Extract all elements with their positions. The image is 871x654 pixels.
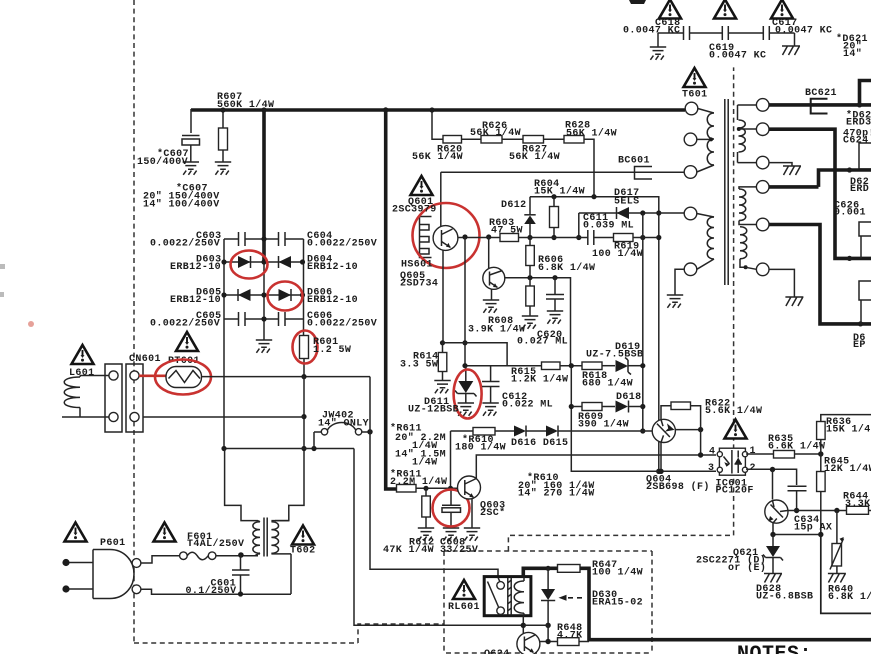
svg-text:5ELS: 5ELS: [614, 197, 640, 208]
resistor R628: [564, 136, 584, 144]
svg-text:NOTES:: NOTES:: [737, 643, 812, 654]
wire: Q621 emitter row y534.5: [773, 523, 821, 535]
wire: stub y170: [819, 170, 871, 187]
zener D619: [616, 360, 629, 372]
svg-text:15K 1/4W: 15K 1/4W: [534, 186, 585, 198]
resistor R627: [523, 136, 544, 144]
wire: y448.5 horizontal (bridge left to x354): [224, 448, 354, 450]
partial triangle at top edge: [629, 0, 646, 4]
warning triangle (C618): [659, 0, 681, 19]
transistor Q621: [765, 500, 788, 523]
svg-text:0.001: 0.001: [834, 208, 866, 219]
svg-text:14" ONLY: 14" ONLY: [318, 418, 369, 430]
warning triangle (F601): [154, 523, 176, 542]
wire: D611 branch vertical x465: [464, 237, 466, 366]
wire C618 to ground: [657, 33, 659, 47]
T601 primary winding upper: [698, 109, 714, 114]
wire: Q601 base from y172 line: [440, 172, 442, 226]
transistor Q603: [458, 476, 481, 499]
dashed boundary upper-right (through T601): [508, 67, 733, 551]
wire: relay top thick to R647: [523, 568, 557, 577]
component box C624 at edge: [859, 143, 871, 169]
svg-text:4.7K: 4.7K: [557, 631, 583, 642]
diode D612: [529, 197, 531, 238]
warning triangle (L601): [72, 345, 94, 364]
capacitor C607: [182, 135, 200, 137]
svg-text:0.0047 KC: 0.0047 KC: [775, 26, 832, 37]
resistor R606: [529, 238, 531, 278]
wire: x450.5 vertical to Q603 base row: [450, 431, 452, 488]
resistor R635: [774, 451, 795, 459]
resistor R601: [303, 336, 305, 377]
wire: x643 vertical: [642, 213, 644, 431]
svg-text:ERB12-10: ERB12-10: [307, 262, 358, 273]
relay switch: [497, 582, 505, 590]
svg-text:0.022 ML: 0.022 ML: [502, 400, 553, 411]
wire: PT601 output to right: [202, 376, 371, 378]
dashed border jog near relay: [358, 624, 444, 643]
svg-text:3.3K: 3.3K: [845, 499, 871, 510]
warning triangle (IC601): [725, 420, 747, 439]
svg-text:14": 14": [843, 48, 862, 60]
svg-text:BC601: BC601: [618, 156, 650, 167]
wire L601 to CN601: [62, 376, 109, 418]
svg-text:1.2 5W: 1.2 5W: [313, 345, 351, 356]
wire: Q624 to R648: [540, 641, 558, 643]
wire: y342.8 node across to R615 jog: [443, 343, 542, 366]
svg-text:14" 270 1/4W: 14" 270 1/4W: [518, 488, 595, 500]
resistor R640 (adjustable): [836, 511, 838, 574]
T601 primary tap pin: [684, 133, 697, 146]
wire: Q605 base: [488, 237, 490, 268]
relay coil: [514, 581, 524, 613]
chassis ground (R640): [828, 574, 846, 583]
resistor R618: [582, 362, 602, 370]
T601 secondary winding 2: [739, 187, 756, 189]
wire: Q603 collector up and right to IC601 pin4 row: [476, 455, 716, 479]
chassis ground (C617): [782, 46, 800, 55]
wire: Q603 emitter to ground: [471, 499, 473, 529]
svg-text:P601: P601: [100, 538, 126, 549]
jumper JW402: [314, 432, 370, 449]
bridge rectifier frame: [224, 238, 304, 449]
wire plug to fuse: [141, 556, 179, 563]
svg-text:2SD734: 2SD734: [400, 279, 438, 290]
resistor R645: [817, 472, 826, 492]
warning triangle (C619): [714, 0, 736, 19]
wire: D617 row y213: [579, 213, 684, 238]
wire: Q605 collector row y277.7: [505, 278, 571, 366]
wire: relay bottom to junction: [522, 616, 524, 634]
T601 secondary pin5: [739, 221, 756, 225]
wire: x354 vertical down then right to relay coil return: [354, 449, 523, 626]
transformer T602: [264, 518, 267, 557]
main isolation dashed border (left vertical): [133, 0, 135, 643]
inductor L601: [79, 376, 81, 418]
capacitor C618: [684, 26, 690, 40]
annotation red ellipse on PT601: [155, 360, 211, 395]
svg-text:RL601: RL601: [448, 602, 480, 613]
resistor R619: [614, 234, 634, 242]
svg-text:1.2K 1/4W: 1.2K 1/4W: [511, 374, 568, 386]
thermistor PT601: [166, 367, 202, 388]
transistor Q624: [517, 632, 540, 654]
svg-text:ERB12-10: ERB12-10: [170, 262, 221, 273]
resistor R636: [817, 422, 826, 440]
wire: R628 to R604 node: [584, 139, 594, 197]
red wire CN601 to PT601: [139, 374, 166, 377]
diode D616: [514, 426, 526, 437]
wire: R647 to thick drop: [580, 568, 589, 641]
capacitor C604: [279, 232, 286, 246]
warning triangle (PT601): [176, 332, 198, 351]
resistor R622: [671, 402, 691, 410]
wire: junction row y625.3: [523, 625, 548, 641]
svg-text:0.1/250V: 0.1/250V: [186, 585, 237, 597]
riser box3: [860, 300, 862, 324]
transistor Q605: [483, 267, 505, 289]
resistor R647: [558, 565, 581, 573]
svg-text:UZ-6.8BSB: UZ-6.8BSB: [756, 592, 813, 603]
diode D617: [617, 207, 630, 219]
svg-text:PC120F: PC120F: [716, 486, 754, 497]
diode D605: [238, 289, 251, 301]
wire: D603/D604 row: [224, 261, 304, 263]
wire: bus to resistor ladder: [432, 110, 443, 139]
svg-text:D618: D618: [616, 392, 642, 403]
ground (C608): [443, 528, 459, 541]
svg-text:56K 1/4W: 56K 1/4W: [412, 151, 463, 163]
wire: thick feed to R611: [386, 109, 397, 490]
wire: pin4 thick: [769, 185, 819, 189]
wire: x571 vertical down: [571, 366, 716, 472]
chassis ground (T601 pin6): [785, 297, 803, 306]
ground (R612): [418, 528, 434, 541]
svg-text:0.0022/250V: 0.0022/250V: [150, 318, 220, 330]
svg-text:2SB698 (F): 2SB698 (F): [646, 481, 710, 493]
svg-text:UZ-12BSB: UZ-12BSB: [408, 405, 459, 416]
ground (Q605): [483, 300, 499, 313]
wire: pin1 to R635: [746, 453, 773, 455]
chassis ground (D628): [764, 574, 782, 583]
ground (C607): [183, 162, 199, 175]
svg-text:6.6K 1/4W: 6.6K 1/4W: [768, 441, 825, 453]
capacitor C617: [763, 26, 769, 40]
transformer T601 core: [725, 99, 728, 285]
wire: pin6 to chassis ground: [769, 269, 794, 297]
bead BC601: [635, 167, 653, 180]
ground (R614): [434, 381, 450, 394]
diode D603: [238, 256, 251, 268]
annotation red ellipse on D611: [454, 370, 482, 419]
wire: [544, 138, 565, 140]
wire: D611 node row y365.7: [465, 365, 507, 367]
annotation red ellipse on D606: [268, 282, 303, 311]
edge marks: [0, 264, 5, 269]
wire: pin2 thick to right low rail: [769, 129, 871, 258]
resistor R611: [397, 485, 417, 493]
resistor R608: [529, 278, 531, 316]
svg-text:Q624: Q624: [484, 649, 510, 654]
resistor R604: [553, 197, 555, 238]
svg-text:T602: T602: [290, 546, 316, 557]
svg-text:EP: EP: [853, 340, 866, 351]
wire: pin2 down to Q621: [772, 470, 774, 500]
svg-text:0.0047 KC: 0.0047 KC: [709, 51, 766, 62]
wire plug bottom to T602 right leg: [141, 589, 291, 594]
svg-text:0.0047 KC: 0.0047 KC: [623, 26, 680, 37]
resistor R626: [481, 136, 502, 144]
resistor R603: [500, 234, 519, 242]
svg-text:15K 1/4: 15K 1/4: [826, 424, 871, 436]
wire: x370 vertical down to relay feed: [370, 377, 498, 578]
zener D628: [772, 535, 774, 547]
ground (bridge center): [256, 340, 272, 353]
plug P601: [93, 550, 134, 599]
warning triangle (C617): [771, 0, 793, 19]
svg-text:ERD3: ERD3: [846, 118, 871, 129]
ground (D611): [458, 403, 474, 416]
bead BC621: [811, 99, 828, 114]
wire: bus down to bridge center: [262, 110, 266, 262]
ground (Q603): [464, 528, 480, 541]
svg-text:180 1/4W: 180 1/4W: [455, 442, 506, 454]
svg-text:T4AL/250V: T4AL/250V: [187, 538, 244, 550]
wire: line cap row y33: [658, 32, 795, 34]
svg-text:UZ-7.5BSB: UZ-7.5BSB: [586, 350, 643, 361]
T601 primary pin 1: [685, 102, 698, 115]
svg-text:D612: D612: [501, 200, 527, 211]
wire: pin1 thick to BC621 and edge: [769, 103, 871, 107]
resistor R615: [542, 362, 561, 370]
wire: [462, 138, 482, 140]
svg-text:6.8K 1/4W: 6.8K 1/4W: [538, 262, 595, 274]
annotation red ellipse on R601: [293, 331, 318, 364]
svg-text:0.039 ML: 0.039 ML: [583, 221, 634, 232]
svg-text:5.6K 1/4W: 5.6K 1/4W: [705, 405, 762, 417]
diode D615: [546, 426, 558, 437]
wire C617 to chassis ground: [794, 33, 796, 46]
capacitor C612: [490, 366, 492, 403]
svg-text:12K 1/4W: 12K 1/4W: [824, 463, 871, 475]
svg-text:0.0022/250V: 0.0022/250V: [307, 238, 377, 250]
annotation red ellipse on D603: [231, 251, 268, 279]
svg-text:390 1/4W: 390 1/4W: [578, 419, 629, 431]
capacitor C634: [788, 486, 807, 491]
svg-text:ERA15-02: ERA15-02: [592, 598, 643, 609]
transistor Q604: [652, 419, 675, 442]
T601 primary winding lower: [707, 217, 714, 259]
fuse F601: [180, 552, 188, 560]
diode D630: [547, 568, 549, 590]
resistor R607: [222, 110, 224, 162]
optocoupler IC601: [719, 448, 745, 475]
wire: Q604 collector up to R622 row: [661, 406, 671, 420]
svg-text:4: 4: [709, 447, 715, 458]
svg-text:T601: T601: [682, 90, 708, 101]
wire: riser at right edge: [860, 81, 871, 105]
wire: C605/C606 row: [224, 318, 304, 320]
capacitor C619: [722, 26, 728, 40]
junction dots bridge: [261, 236, 266, 241]
transistor Q601: [433, 226, 458, 251]
wire: Q604 emitter right to pin4 drop: [675, 429, 700, 431]
svg-text:0.0022/250V: 0.0022/250V: [307, 318, 377, 330]
wire T602 left bottom: [258, 553, 260, 555]
svg-text:15p AX: 15p AX: [794, 523, 832, 534]
capacitor C608: [450, 488, 452, 528]
component box D624 at edge: [859, 281, 871, 300]
T601 secondary tap pin2: [756, 123, 769, 136]
capacitor C606: [279, 312, 286, 326]
svg-text:ERB12-10: ERB12-10: [170, 295, 221, 306]
heatsink HS601: [420, 217, 432, 258]
svg-text:150/400V: 150/400V: [137, 156, 188, 168]
relay section dashed box: [444, 551, 652, 653]
svg-text:47K 1/4W: 47K 1/4W: [383, 544, 434, 556]
chassis ground (T601 pin3): [783, 166, 801, 175]
svg-text:3.9K 1/4W: 3.9K 1/4W: [468, 324, 525, 336]
svg-text:D616 D615: D616 D615: [511, 438, 568, 449]
resistor R620: [443, 136, 462, 144]
wire: vertical x305 down to T602 jog: [275, 377, 304, 521]
wire: bridge center to ground: [263, 319, 265, 340]
ground (C612): [482, 403, 498, 416]
wire: Q604 down to pin3 row: [660, 442, 662, 471]
wire: bus left end down to C607: [190, 109, 192, 133]
wire: Q605 emitter to ground: [491, 289, 493, 300]
wire T602 right top/bottom: [271, 521, 291, 594]
svg-text:100 1/4W: 100 1/4W: [592, 567, 643, 579]
svg-text:47 5W: 47 5W: [491, 226, 523, 237]
capacitor C620: [554, 278, 556, 311]
svg-text:680 1/4W: 680 1/4W: [582, 378, 633, 390]
relay RL601 box: [484, 577, 531, 616]
svg-text:1/4W: 1/4W: [412, 457, 438, 469]
capacitor C605: [239, 312, 246, 326]
annotation red circle on C608: [433, 490, 470, 527]
arrow annotation D630: [559, 595, 567, 601]
warning triangle (RL601): [453, 580, 475, 599]
resistor R612: [425, 488, 427, 528]
svg-text:or (E): or (E): [728, 562, 766, 574]
svg-text:ERB12-10: ERB12-10: [307, 295, 358, 306]
ground (R607): [215, 162, 231, 175]
ground (T601 primary): [667, 295, 683, 308]
svg-text:56K 1/4W: 56K 1/4W: [566, 128, 617, 140]
resistor R644: [847, 506, 869, 514]
riser box2: [860, 236, 862, 258]
ground (C618): [650, 47, 666, 60]
wire: bottom-right box line: [821, 535, 871, 614]
wire: bridge left leg to T602 left jog: [225, 449, 258, 521]
main isolation dashed border (bottom horizontal): [134, 642, 358, 644]
warning triangle (T602): [292, 526, 314, 545]
svg-text:6.8K 1/: 6.8K 1/: [828, 591, 871, 603]
wire fuse to T602: [216, 554, 258, 556]
svg-text:HS601: HS601: [401, 260, 433, 271]
resistor R610: [473, 428, 495, 436]
svg-text:2SC*: 2SC*: [480, 507, 506, 519]
zener D611: [465, 366, 467, 381]
capacitor C603: [239, 232, 246, 246]
svg-text:3.3 5W: 3.3 5W: [400, 360, 438, 371]
svg-text:1: 1: [750, 446, 756, 457]
resistor R614: [442, 343, 444, 381]
warning triangle (P601): [65, 523, 87, 542]
wire: R609 row y406.5: [571, 406, 582, 408]
T601 secondary pin3 to chassis ground: [738, 152, 757, 163]
svg-text:0.027 ML: 0.027 ML: [517, 337, 568, 348]
wire: Q621 collector row y510.5: [788, 510, 847, 512]
relay core: [508, 578, 511, 615]
diode D618: [616, 401, 629, 413]
connector CN601: [105, 364, 122, 432]
svg-text:ERD: ERD: [850, 184, 869, 195]
wire: y196.7 row (D612/R604/R628 node): [530, 197, 659, 472]
svg-text:33/25V: 33/25V: [440, 544, 478, 556]
T601 secondary winding 1: [738, 105, 757, 120]
plug prongs: [67, 563, 93, 590]
warning triangle (T601): [684, 68, 706, 87]
T601 primary lower pin: [684, 166, 697, 179]
svg-text:100 1/4W: 100 1/4W: [592, 248, 643, 260]
wire: y172 long line to T601: [441, 171, 684, 173]
wire: Q601 emitter down to R614 node: [442, 250, 444, 343]
svg-text:0.0022/250V: 0.0022/250V: [150, 238, 220, 250]
wire: bottom thick rail: [589, 638, 871, 642]
wire: main HV bus: [191, 108, 685, 112]
wire: D616/D615 row y431: [451, 430, 653, 432]
wire: Q601 collector row y237.5: [458, 237, 500, 239]
ground (C620): [547, 311, 563, 324]
svg-text:56K 1/4W: 56K 1/4W: [470, 127, 521, 139]
warning triangle (Q601): [411, 176, 433, 195]
resistor R609: [582, 403, 602, 411]
wire: CN601 bottom to x305: [143, 416, 304, 418]
ground (R608): [522, 316, 538, 329]
capacitor C611: [588, 230, 594, 245]
wire: [502, 138, 523, 140]
svg-text:2SC3979: 2SC3979: [392, 205, 437, 216]
svg-text:3: 3: [708, 463, 714, 474]
wire: T601 lower pin to ground: [675, 269, 684, 295]
diode D606: [279, 289, 292, 301]
wire: R636 top rail: [821, 415, 871, 422]
capacitor C601: [240, 555, 242, 594]
resistor R648: [558, 638, 580, 646]
wire: pin2 row: [746, 469, 797, 485]
diode D604: [279, 256, 292, 268]
T601 secondary winding 3: [740, 227, 747, 259]
component box C626 at edge: [859, 222, 871, 236]
svg-text:BC621: BC621: [805, 88, 837, 99]
svg-text:14" 100/400V: 14" 100/400V: [143, 199, 220, 211]
wire: D605/D606 row: [224, 294, 304, 296]
wire: pin5 thick down to stub y323.9: [769, 225, 871, 324]
red speck: [28, 321, 34, 327]
annotation red ellipse on Q601: [413, 203, 480, 268]
svg-text:56K 1/4W: 56K 1/4W: [509, 151, 560, 163]
svg-text:C624: C624: [843, 136, 869, 147]
node: bridge row C603/C604: [224, 238, 304, 240]
wire: R622 to pin4 node: [691, 406, 701, 455]
T601 secondary pin1: [756, 99, 769, 112]
